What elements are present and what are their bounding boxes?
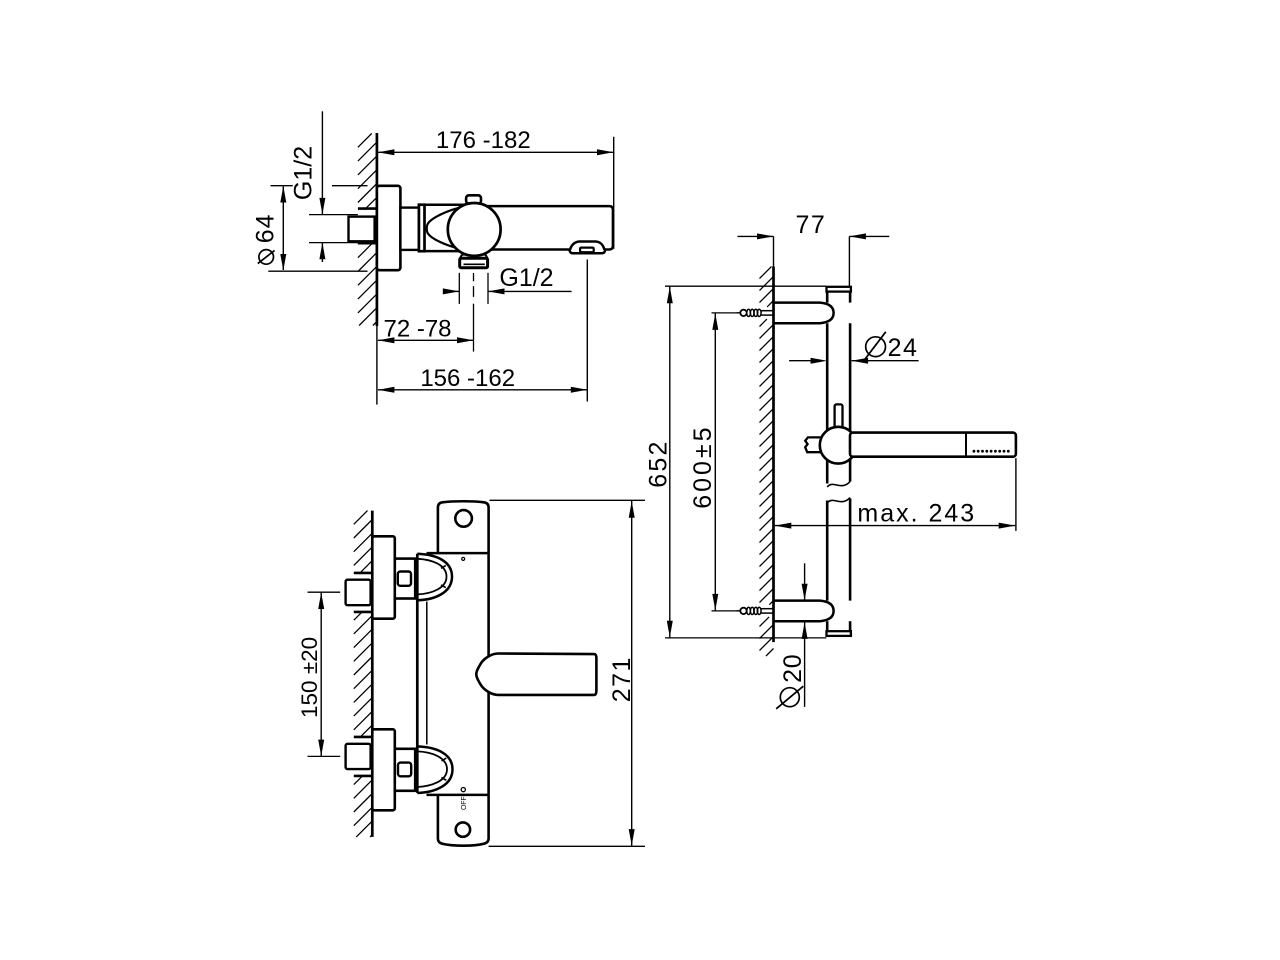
svg-text:176 -182: 176 -182 xyxy=(436,127,531,154)
svg-text:OFF: OFF xyxy=(461,797,468,810)
svg-text:652: 652 xyxy=(644,439,672,487)
svg-text:600±5: 600±5 xyxy=(689,424,717,508)
svg-text:24: 24 xyxy=(888,334,919,362)
svg-text:271: 271 xyxy=(608,656,636,702)
svg-text:max. 243: max. 243 xyxy=(857,500,976,528)
svg-text:72 -78: 72 -78 xyxy=(383,316,451,343)
svg-text:156 -162: 156 -162 xyxy=(420,365,515,392)
svg-text:20: 20 xyxy=(779,654,807,683)
svg-text:64: 64 xyxy=(252,213,280,243)
svg-text:G1/2: G1/2 xyxy=(290,146,318,200)
svg-text:G1/2: G1/2 xyxy=(499,264,553,292)
svg-text:150 ±20: 150 ±20 xyxy=(297,637,322,718)
svg-text:77: 77 xyxy=(795,211,826,239)
